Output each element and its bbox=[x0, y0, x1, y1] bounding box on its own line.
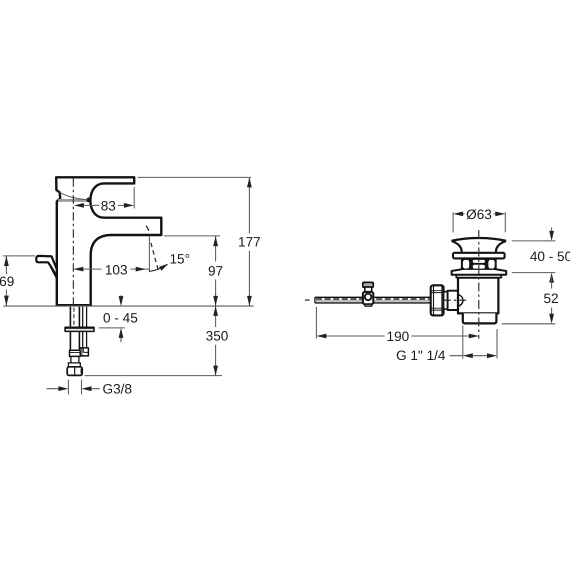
dim 177 bbox=[248, 177, 250, 306]
stud centerline bbox=[73, 308, 75, 331]
handle pivot dot bbox=[86, 198, 90, 203]
faucet body outline bbox=[56, 177, 161, 305]
lever inner line bbox=[51, 266, 56, 275]
svg-text:15°: 15° bbox=[170, 251, 191, 266]
svg-text:177: 177 bbox=[238, 235, 261, 250]
rod clamp fitting bbox=[363, 283, 373, 288]
svg-text:69: 69 bbox=[0, 274, 14, 289]
15 degree dashed flow line bbox=[146, 226, 149, 231]
stud collar bbox=[70, 350, 81, 356]
dim 40-50 bbox=[551, 228, 553, 237]
svg-text:G3/8: G3/8 bbox=[103, 381, 132, 396]
lever handle (drain pull) bbox=[36, 256, 57, 278]
inlet dome inside body bbox=[458, 295, 463, 306]
dim 97 bbox=[215, 236, 217, 306]
faucet centerline bbox=[72, 178, 74, 305]
countertop surface line bbox=[4, 305, 254, 307]
dim 350 bbox=[215, 306, 217, 376]
plug trumpet bbox=[452, 241, 506, 253]
rod thread hatch bbox=[316, 298, 430, 300]
lower flange (ring2) bbox=[452, 269, 507, 275]
collar above body bbox=[456, 275, 501, 278]
svg-text:97: 97 bbox=[208, 263, 223, 278]
svg-text:190: 190 bbox=[387, 329, 410, 344]
svg-text:0 - 45: 0 - 45 bbox=[103, 310, 138, 325]
nut collar bbox=[68, 363, 80, 367]
mounting washer bbox=[65, 327, 94, 331]
svg-text:G 1" 1/4: G 1" 1/4 bbox=[396, 348, 446, 363]
handle bottom gray band bbox=[58, 199, 87, 202]
dim G 1" 1/4 bbox=[463, 326, 497, 359]
dim 190 bbox=[315, 307, 317, 339]
15 degree arc with arrow bbox=[150, 264, 168, 271]
tailpiece bottom ref bbox=[502, 323, 556, 325]
svg-text:103: 103 bbox=[105, 262, 128, 277]
spout bottom extension line bbox=[164, 235, 220, 237]
stud lower tube bbox=[71, 356, 79, 363]
neck between nut and inlet bbox=[444, 292, 448, 309]
dim 83 bbox=[78, 187, 135, 209]
inlet tube bbox=[448, 291, 458, 310]
drain rod bbox=[315, 297, 431, 303]
svg-text:52: 52 bbox=[543, 291, 558, 306]
15 degree angle: vertical ref line bbox=[148, 236, 150, 272]
dim 0-45 bbox=[120, 295, 122, 342]
cage section bbox=[461, 259, 497, 270]
dim 52 bbox=[551, 277, 553, 320]
G3/8 nut bbox=[67, 367, 82, 376]
upper flange (ring1) bbox=[453, 253, 505, 259]
nut bottom extension line bbox=[85, 375, 222, 377]
horizontal centerline through nut bbox=[444, 299, 466, 301]
handle underside curve bbox=[58, 192, 88, 200]
dim O63 bbox=[453, 212, 505, 232]
drain body bbox=[458, 278, 498, 314]
svg-text:Ø63: Ø63 bbox=[466, 207, 492, 222]
svg-text:83: 83 bbox=[101, 199, 116, 214]
handle top extension line bbox=[138, 176, 251, 178]
dim 40-50 refs bbox=[512, 241, 556, 273]
svg-text:40 - 50: 40 - 50 bbox=[530, 249, 570, 264]
drain centerline bbox=[478, 230, 480, 339]
hose elbow fitting bbox=[80, 348, 89, 356]
dim 69 bbox=[3, 255, 35, 257]
flexible hose below body bbox=[83, 307, 87, 348]
dim 103 bbox=[77, 268, 149, 270]
tailpiece bbox=[463, 313, 497, 323]
threaded stud below body bbox=[70, 307, 79, 351]
knurled coupling nut bbox=[431, 285, 444, 315]
svg-text:350: 350 bbox=[206, 328, 229, 343]
dim G3/8 bbox=[68, 380, 81, 395]
plug rim edges bbox=[452, 242, 506, 244]
rod centerline left bbox=[305, 299, 310, 301]
